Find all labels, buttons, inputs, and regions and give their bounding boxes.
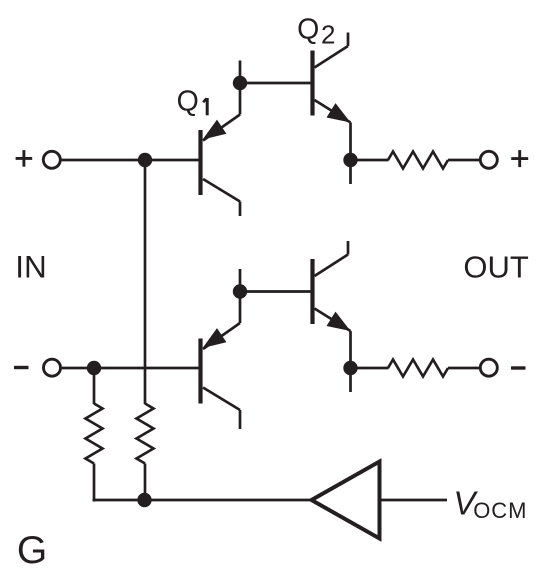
- node dot output -: [343, 361, 357, 375]
- wire node to Q2 base: [240, 82, 311, 85]
- node dot on - input wire: [87, 361, 101, 375]
- resistor R2 (output -): [388, 360, 448, 377]
- svg-text:Q: Q: [177, 86, 199, 118]
- terminal circle + output: [480, 151, 497, 168]
- transistor Q3 (PNP): [201, 292, 241, 430]
- transistor Q4 (NPN): [313, 241, 351, 392]
- stub above Q3 emitter node: [239, 269, 242, 292]
- plus sign (+ output): [511, 150, 528, 167]
- wire - node down to resistor RG1: [93, 368, 96, 404]
- Q1 emitter vertical wire: [239, 83, 242, 115]
- resistor RG1 (left vertical): [86, 404, 103, 464]
- Q2 collector stub: [347, 33, 350, 47]
- wire node to resistor R2: [351, 367, 389, 370]
- wire resistor R2 to terminal: [448, 367, 481, 370]
- Q4 base bar: [310, 259, 314, 324]
- Q1 collector stub: [239, 202, 242, 217]
- svg-text:IN: IN: [15, 249, 47, 285]
- Q3 collector stub: [239, 410, 242, 429]
- transistor Q2 (NPN): [313, 33, 351, 185]
- plus sign (+ input): [16, 150, 33, 167]
- Q4 collector stub: [347, 241, 350, 255]
- node dot on + input wire: [138, 153, 152, 167]
- wire RG2 bottom stub: [144, 464, 147, 501]
- wire bottom common (to buffer apex): [93, 499, 312, 502]
- Q2 collector diagonal: [315, 46, 349, 68]
- wire buffer input from VOCM: [380, 499, 448, 502]
- Q4 emitter diagonal: [315, 309, 351, 332]
- node dot Q1 emitter / Q2 base: [233, 76, 247, 90]
- Q1 base bar: [198, 130, 202, 195]
- terminal circle - output: [480, 359, 497, 376]
- Q2 emitter stub below node: [349, 160, 352, 184]
- buffer amplifier U1 (triangle): [312, 462, 380, 539]
- wire node to resistor R1: [351, 159, 389, 162]
- wire RG1 bottom stub: [93, 464, 96, 502]
- label Q2: [297, 14, 335, 50]
- Q3 emitter arrow (points into bar): [203, 328, 227, 348]
- Q3 emitter vertical wire: [239, 292, 242, 324]
- transistor Q1 (PNP): [201, 83, 241, 216]
- resistor R1 (output +): [388, 152, 448, 169]
- wire - input to Q3 base: [61, 367, 199, 370]
- terminal circle + input: [43, 151, 60, 168]
- Q2 emitter diagonal: [315, 100, 351, 123]
- stub above Q1 emitter node: [239, 61, 242, 84]
- Q4 emitter vertical wire: [349, 331, 352, 368]
- label VOCM: [453, 484, 527, 523]
- node dot output +: [343, 153, 357, 167]
- minus sign (- output): [511, 366, 526, 369]
- svg-text:OUT: OUT: [463, 249, 529, 284]
- Q1 collector diagonal: [203, 179, 240, 202]
- svg-text:2: 2: [321, 20, 335, 50]
- Q2 emitter vertical wire: [349, 123, 352, 161]
- node dot bottom common: [137, 493, 151, 507]
- Q1 emitter diagonal: [203, 115, 240, 141]
- Q4 emitter stub below node: [349, 368, 352, 392]
- Q3 emitter diagonal: [203, 323, 240, 349]
- svg-text:OCM: OCM: [473, 498, 527, 523]
- minus sign (- input): [14, 366, 29, 369]
- wire + input to Q1 base: [61, 159, 199, 162]
- Q3 base bar: [198, 339, 202, 404]
- wire node to Q4 base: [240, 290, 311, 293]
- Q2 emitter arrow (points outward): [327, 103, 351, 122]
- node dot Q3 emitter / Q4 base: [233, 284, 247, 298]
- label Q1: [177, 86, 208, 118]
- svg-text:Q: Q: [297, 14, 319, 46]
- Q4 collector diagonal: [315, 255, 349, 277]
- wire vertical from + input node down to resistor RG2: [144, 160, 147, 404]
- terminal circle - input: [44, 359, 61, 376]
- Q1 emitter arrow (points into bar): [203, 120, 227, 140]
- resistor RG2 (right vertical): [137, 404, 154, 464]
- Q4 emitter arrow (points outward): [327, 312, 351, 331]
- Q2 base bar: [310, 51, 314, 116]
- svg-text:G: G: [17, 529, 47, 572]
- Q3 collector diagonal: [203, 388, 240, 411]
- wire resistor R1 to terminal: [448, 159, 481, 162]
